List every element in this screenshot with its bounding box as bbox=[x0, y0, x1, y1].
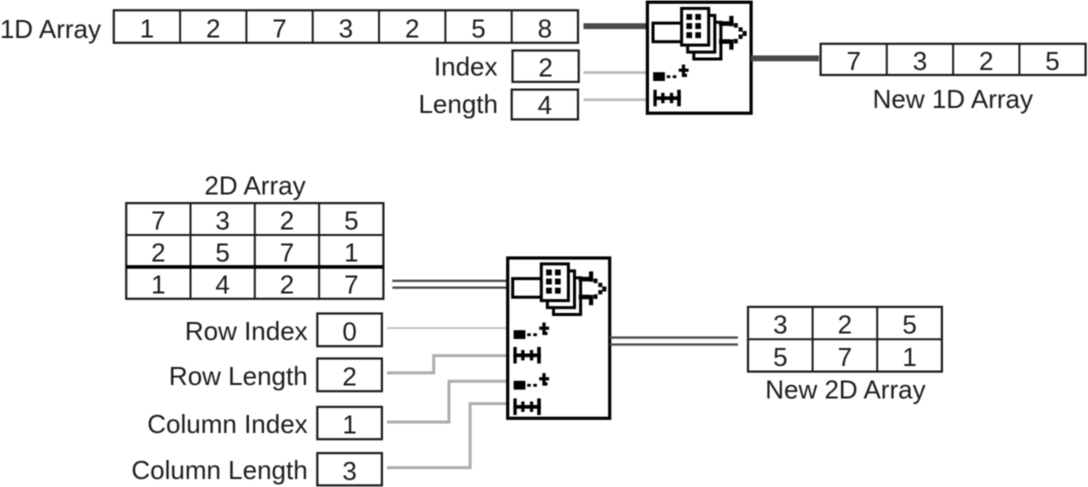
svg-text:2D Array: 2D Array bbox=[204, 171, 305, 201]
svg-text:4: 4 bbox=[538, 90, 552, 120]
svg-text:1: 1 bbox=[342, 410, 356, 440]
svg-text:2: 2 bbox=[405, 13, 419, 43]
Index control bbox=[513, 51, 579, 83]
svg-text:2: 2 bbox=[280, 206, 294, 236]
svg-text:3: 3 bbox=[913, 46, 927, 76]
svg-text:New 1D Array: New 1D Array bbox=[873, 84, 1033, 114]
svg-text:Column Index: Column Index bbox=[147, 409, 307, 439]
wire: new 1D array out bbox=[751, 55, 819, 61]
svg-text:7: 7 bbox=[344, 269, 358, 299]
Array Subset function node (2D) bbox=[508, 258, 610, 418]
Column Length control bbox=[317, 453, 382, 486]
wire: column index scalar bbox=[387, 381, 508, 422]
svg-text:4: 4 bbox=[215, 269, 229, 299]
svg-text:5: 5 bbox=[471, 13, 485, 43]
svg-text:Column Length: Column Length bbox=[131, 455, 307, 485]
New 1D Array indicator bbox=[821, 44, 1086, 76]
svg-text:7: 7 bbox=[151, 206, 165, 236]
svg-text:5: 5 bbox=[215, 237, 229, 267]
wire: row length scalar bbox=[387, 356, 508, 373]
svg-text:0: 0 bbox=[342, 317, 356, 347]
svg-text:1: 1 bbox=[151, 269, 165, 299]
svg-text:Row Index: Row Index bbox=[185, 316, 308, 346]
Row Length control bbox=[317, 359, 382, 392]
svg-text:New 2D Array: New 2D Array bbox=[765, 374, 925, 404]
svg-text:3: 3 bbox=[342, 456, 356, 486]
svg-text:Row Length: Row Length bbox=[169, 361, 308, 391]
1D array control bbox=[114, 10, 578, 43]
wire: 1D array data into function bbox=[584, 23, 648, 29]
svg-text:1D Array: 1D Array bbox=[0, 14, 101, 44]
wire: index scalar bbox=[584, 71, 648, 74]
Array Subset function node (1D) bbox=[647, 2, 751, 113]
svg-text:2: 2 bbox=[342, 362, 356, 392]
svg-text:Length: Length bbox=[418, 89, 498, 119]
wire: row index scalar bbox=[387, 327, 508, 329]
svg-text:5: 5 bbox=[773, 342, 787, 372]
svg-text:7: 7 bbox=[272, 13, 286, 43]
svg-text:5: 5 bbox=[344, 206, 358, 236]
svg-text:Index: Index bbox=[434, 52, 498, 82]
wire: new 2D array out (double line) bbox=[610, 336, 738, 345]
svg-text:7: 7 bbox=[838, 342, 852, 372]
wire: length scalar bbox=[584, 98, 648, 101]
svg-text:3: 3 bbox=[215, 206, 229, 236]
Column Index control bbox=[317, 407, 382, 440]
New 2D Array indicator bbox=[748, 307, 942, 372]
wire: 2D array data into function (double line) bbox=[392, 280, 507, 289]
svg-text:1: 1 bbox=[344, 237, 358, 267]
svg-text:2: 2 bbox=[979, 46, 993, 76]
wire: column length scalar bbox=[387, 404, 508, 468]
svg-text:8: 8 bbox=[538, 13, 552, 43]
svg-text:2: 2 bbox=[280, 269, 294, 299]
svg-text:5: 5 bbox=[902, 310, 916, 340]
svg-text:1: 1 bbox=[140, 13, 154, 43]
svg-text:7: 7 bbox=[280, 237, 294, 267]
svg-text:1: 1 bbox=[902, 342, 916, 372]
svg-text:2: 2 bbox=[538, 52, 552, 82]
svg-text:2: 2 bbox=[151, 237, 165, 267]
Row Index control bbox=[317, 314, 382, 347]
2D array control bbox=[126, 203, 383, 299]
Length control bbox=[512, 90, 578, 120]
svg-text:7: 7 bbox=[846, 46, 860, 76]
svg-text:3: 3 bbox=[339, 13, 353, 43]
svg-text:3: 3 bbox=[773, 310, 787, 340]
svg-text:2: 2 bbox=[838, 310, 852, 340]
svg-text:5: 5 bbox=[1045, 46, 1059, 76]
svg-text:2: 2 bbox=[206, 13, 220, 43]
